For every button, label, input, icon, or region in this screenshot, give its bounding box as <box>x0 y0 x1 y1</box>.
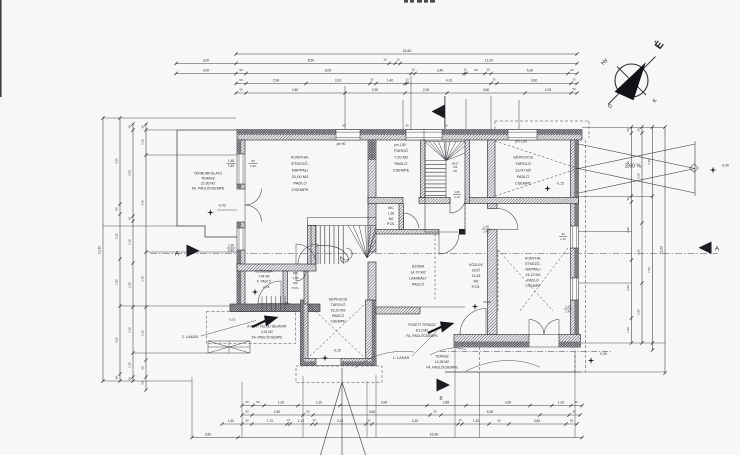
svg-text:30: 30 <box>128 125 132 129</box>
wall eloszoba top <box>237 264 316 271</box>
terrace top-left outline <box>177 130 237 237</box>
svg-text:2,40: 2,40 <box>228 164 234 168</box>
svg-text:1,10: 1,10 <box>298 419 304 423</box>
wall eloszoba/wc divider <box>283 271 288 304</box>
svg-text:-0,02: -0,02 <box>229 318 236 322</box>
svg-text:±0,00: ±0,00 <box>483 300 491 304</box>
svg-text:4,80: 4,80 <box>292 88 299 92</box>
lower garage apron dashed <box>296 366 382 383</box>
section marker A left <box>187 245 200 258</box>
svg-text:WC: WC <box>293 271 299 275</box>
eloszoba door <box>258 281 281 304</box>
svg-text:2,10: 2,10 <box>454 195 460 199</box>
wall corridor / konyha2 <box>488 204 498 209</box>
svg-text:90: 90 <box>256 400 260 404</box>
compass rose <box>615 64 648 97</box>
svg-text:K. PADLÓ: K. PADLÓ <box>257 279 272 284</box>
svg-text:5,30: 5,30 <box>487 410 494 414</box>
window left wall 2 <box>237 228 245 250</box>
outer wall top <box>237 130 582 141</box>
entrance arrow left flat <box>252 321 266 328</box>
svg-text:2,40: 2,40 <box>228 248 234 252</box>
svg-text:1,20: 1,20 <box>558 400 564 404</box>
svg-text:24,12 M2: 24,12 M2 <box>526 273 541 277</box>
svg-text:B: B <box>439 396 442 401</box>
svg-text:CSEMPE: CSEMPE <box>525 284 541 288</box>
svg-text:FA. PADLÓCSEMPE: FA. PADLÓCSEMPE <box>192 186 225 191</box>
interior wall above szoba <box>376 230 439 235</box>
svg-text:2,10: 2,10 <box>128 239 132 245</box>
svg-text:pm 1,80: pm 1,80 <box>394 143 406 147</box>
svg-text:2,30: 2,30 <box>115 279 119 285</box>
svg-text:3,60: 3,60 <box>531 78 538 82</box>
svg-text:90: 90 <box>561 232 565 236</box>
svg-text:GÉPKOCSI: GÉPKOCSI <box>513 155 533 160</box>
svg-text:50: 50 <box>570 68 574 72</box>
svg-text:1,48: 1,48 <box>228 159 234 163</box>
svg-text:3,30: 3,30 <box>115 337 119 343</box>
svg-text:3,30: 3,30 <box>505 400 512 404</box>
leader curves <box>355 351 414 368</box>
svg-text:10: 10 <box>411 68 415 72</box>
extension lines from top chains <box>402 100 404 130</box>
svg-text:-0,02: -0,02 <box>218 204 226 208</box>
svg-text:TÁROLÓ: TÁROLÓ <box>331 302 346 307</box>
svg-text:FA. PADLÓCSEMPE: FA. PADLÓCSEMPE <box>426 365 458 370</box>
svg-text:2,20: 2,20 <box>115 233 119 239</box>
svg-text:8,50: 8,50 <box>308 58 315 62</box>
wall garage left <box>488 140 496 198</box>
svg-text:3,45: 3,45 <box>647 159 651 165</box>
svg-text:EDŐ: EDŐ <box>472 268 480 273</box>
interior wall under bathroom/garage <box>368 198 403 204</box>
section flag B top <box>444 96 446 130</box>
svg-text:2,70: 2,70 <box>141 276 145 282</box>
svg-text:1,40: 1,40 <box>387 78 394 82</box>
svg-text:PADLÓ: PADLÓ <box>412 282 424 287</box>
section line B bottom + V mark <box>341 368 343 455</box>
svg-text:10: 10 <box>459 418 462 422</box>
svg-text:2,10: 2,10 <box>560 237 566 241</box>
svg-text:12,30: 12,30 <box>98 246 102 255</box>
svg-text:12,63: 12,63 <box>472 274 481 278</box>
svg-text:FEDETT TERASZ: FEDETT TERASZ <box>408 323 435 327</box>
svg-text:1,20: 1,20 <box>141 139 145 145</box>
level -0,30 right <box>710 167 717 174</box>
wall bathroom/stair divider <box>421 140 426 198</box>
svg-text:2,40: 2,40 <box>250 164 256 168</box>
clipped header text <box>404 0 408 3</box>
svg-text:1,96: 1,96 <box>388 211 395 215</box>
svg-text:4,10: 4,10 <box>446 78 453 82</box>
lower garage dashed X <box>309 305 364 357</box>
svg-text:P.CS.: P.CS. <box>472 285 481 289</box>
svg-text:90: 90 <box>141 366 145 370</box>
bathroom door <box>404 213 419 228</box>
staircase 2 central <box>308 217 377 219</box>
svg-text:3,80: 3,80 <box>483 88 490 92</box>
svg-text:ELŐSZOBA: ELŐSZOBA <box>255 269 273 274</box>
svg-text:1,70: 1,70 <box>267 419 273 423</box>
window left wall 1 <box>237 154 245 184</box>
level terrace right <box>588 357 595 364</box>
svg-text:15: 15 <box>396 58 400 62</box>
svg-text:PADLÓ: PADLÓ <box>293 181 306 186</box>
svg-text:3,60: 3,60 <box>534 419 541 423</box>
svg-text:90: 90 <box>251 159 255 163</box>
svg-text:2,85: 2,85 <box>443 400 450 404</box>
svg-text:12,30: 12,30 <box>660 246 664 254</box>
svg-text:pm 90: pm 90 <box>337 142 346 146</box>
svg-text:GÉPKOCSI: GÉPKOCSI <box>329 297 348 302</box>
svg-text:50: 50 <box>306 410 310 414</box>
bottom dimension chain row 1 <box>242 405 582 407</box>
section marker A right <box>699 242 712 255</box>
level mark terasz <box>207 209 214 216</box>
svg-text:50: 50 <box>239 78 243 82</box>
svg-text:7,35: 7,35 <box>647 267 651 273</box>
svg-text:M2: M2 <box>389 217 394 221</box>
outer wall left <box>237 140 245 154</box>
svg-text:2,05: 2,05 <box>423 88 430 92</box>
stair2 lower double door <box>296 244 316 264</box>
svg-text:30: 30 <box>626 128 630 132</box>
svg-text:P.CS.: P.CS. <box>292 286 300 290</box>
svg-text:2,40: 2,40 <box>565 309 571 313</box>
stair1 door arc <box>450 198 466 214</box>
svg-text:2,50: 2,50 <box>274 410 281 414</box>
left extension lines <box>103 117 236 119</box>
svg-text:31,00 M2: 31,00 M2 <box>292 174 309 179</box>
svg-text:TERASZ: TERASZ <box>201 177 216 181</box>
svg-text:4,20: 4,20 <box>412 419 419 423</box>
svg-text:2,90: 2,90 <box>626 227 630 233</box>
svg-text:4,41 M2: 4,41 M2 <box>261 330 273 334</box>
svg-text:CSEMPE: CSEMPE <box>292 187 309 192</box>
svg-text:1,20: 1,20 <box>316 400 323 404</box>
stair2 walkline <box>316 246 349 263</box>
svg-text:1,80: 1,80 <box>454 190 460 194</box>
corridor dashed lines <box>434 234 436 300</box>
level garage2 <box>322 355 329 362</box>
svg-text:1,25: 1,25 <box>278 400 285 404</box>
svg-text:30: 30 <box>368 418 371 422</box>
svg-text:KONYHA-: KONYHA- <box>291 155 310 160</box>
svg-text:3,80: 3,80 <box>369 410 376 414</box>
svg-text:3,00: 3,00 <box>203 58 210 62</box>
svg-text:5,30: 5,30 <box>527 68 534 72</box>
svg-text:1,30: 1,30 <box>473 419 479 423</box>
svg-text:30: 30 <box>115 376 119 380</box>
svg-text:30: 30 <box>487 67 490 71</box>
svg-text:LAMINÁLT: LAMINÁLT <box>409 277 428 281</box>
wc2 door <box>296 271 306 281</box>
svg-text:15: 15 <box>383 58 387 62</box>
svg-text:50: 50 <box>141 381 145 385</box>
top dimension chain row 4 <box>236 83 577 85</box>
left dimension chains <box>102 118 104 381</box>
bottom extension lines <box>191 377 193 438</box>
scan left edge <box>0 0 2 97</box>
staircase 1 top right <box>424 140 426 232</box>
svg-text:10: 10 <box>128 217 132 221</box>
svg-text:11,00: 11,00 <box>485 58 493 62</box>
svg-text:1,40: 1,40 <box>483 225 489 229</box>
svg-text:90: 90 <box>444 124 448 128</box>
svg-text:50: 50 <box>245 410 249 414</box>
svg-text:CSEMPE: CSEMPE <box>515 182 532 186</box>
wall szoba bottom partial <box>376 307 420 314</box>
garage1 dashed door swing <box>495 141 578 169</box>
svg-text:2,95: 2,95 <box>637 249 641 255</box>
svg-text:1,96: 1,96 <box>292 276 298 280</box>
svg-text:22,95 M2: 22,95 M2 <box>201 182 216 186</box>
svg-text:10: 10 <box>464 67 467 71</box>
entrance arrow right flat <box>428 327 442 334</box>
level garage1 <box>544 185 551 192</box>
svg-text:10: 10 <box>313 418 316 422</box>
window right wall 1 <box>571 226 579 248</box>
svg-text:50: 50 <box>245 419 249 423</box>
svg-text:NAPPALI: NAPPALI <box>292 168 309 173</box>
svg-text:2,60 %: 2,60 % <box>625 164 642 170</box>
svg-text:20: 20 <box>572 410 576 414</box>
svg-text:18x17: 18x17 <box>451 162 459 166</box>
svg-text:-0,15: -0,15 <box>262 285 269 289</box>
window W top living <box>336 130 360 141</box>
svg-text:3,00: 3,00 <box>203 68 210 72</box>
section marker B bottom right <box>437 379 451 392</box>
bottom dimension chain row 2 <box>242 414 580 416</box>
svg-text:7,04 M2: 7,04 M2 <box>258 275 270 279</box>
svg-text:3,10: 3,10 <box>335 78 342 82</box>
svg-text:1,20: 1,20 <box>626 327 630 333</box>
svg-text:NAPPALI: NAPPALI <box>526 268 541 272</box>
svg-text:2. LAKÁS: 2. LAKÁS <box>182 335 199 339</box>
svg-text:50: 50 <box>115 207 119 211</box>
svg-text:SZOBA: SZOBA <box>412 265 425 269</box>
svg-text:pm 1,80: pm 1,80 <box>515 140 527 144</box>
svg-text:-0,15: -0,15 <box>556 182 563 186</box>
svg-text:2,60: 2,60 <box>141 330 145 336</box>
garage top dashed overhang <box>495 120 589 122</box>
level eloszoba <box>252 289 259 296</box>
svg-text:30: 30 <box>637 128 641 132</box>
svg-text:P.CS.: P.CS. <box>387 222 395 226</box>
svg-text:PADLÓ: PADLÓ <box>395 161 408 166</box>
bottom double door right flat <box>529 320 544 335</box>
svg-text:2,30: 2,30 <box>128 327 132 333</box>
svg-text:-0,30: -0,30 <box>599 352 607 356</box>
svg-text:8,12 M2: 8,12 M2 <box>416 329 428 333</box>
outer wall right <box>571 140 579 226</box>
window W top garage <box>508 130 537 141</box>
svg-text:-0,30: -0,30 <box>721 164 729 168</box>
svg-text:10: 10 <box>406 77 409 81</box>
svg-text:CSEMPE: CSEMPE <box>330 320 346 324</box>
svg-text:1. LAKÁS: 1. LAKÁS <box>393 356 410 360</box>
window W top hall <box>406 130 442 141</box>
dash-dot line lower right <box>440 351 612 353</box>
svg-text:30: 30 <box>573 78 576 82</box>
svg-text:30: 30 <box>626 197 630 201</box>
svg-text:30: 30 <box>141 125 145 129</box>
svg-text:WC: WC <box>388 206 394 210</box>
svg-text:PADLÓ: PADLÓ <box>517 174 530 179</box>
bottom wall right flat <box>454 335 529 348</box>
svg-text:3,10: 3,10 <box>337 419 344 423</box>
svg-text:16,20 M2: 16,20 M2 <box>331 309 346 313</box>
svg-text:M2: M2 <box>474 280 479 284</box>
svg-text:=29: =29 <box>453 165 458 169</box>
svg-text:ÉTKEZŐ-: ÉTKEZŐ- <box>291 161 309 166</box>
top dimension chain row 5 <box>236 92 577 94</box>
terrace door single <box>460 309 486 335</box>
svg-text:90: 90 <box>474 68 478 72</box>
svg-text:50: 50 <box>573 87 576 91</box>
svg-text:FA. PADLÓCSEMPE: FA. PADLÓCSEMPE <box>252 335 284 340</box>
svg-text:TÉRBURKOLATÚ: TÉRBURKOLATÚ <box>194 171 223 176</box>
svg-text:-0,15: -0,15 <box>333 349 340 353</box>
svg-text:8,00: 8,00 <box>325 68 332 72</box>
konyha2 dashed X <box>498 250 553 311</box>
konyha2 door <box>497 209 518 230</box>
top dimension chain row 3 <box>176 73 577 75</box>
top dimension chain row 1 (16,60) <box>236 53 577 55</box>
svg-text:2,40: 2,40 <box>437 68 444 72</box>
porch dashed outline <box>207 312 296 344</box>
entrance step block <box>208 341 250 353</box>
svg-text:14,25 M2: 14,25 M2 <box>435 360 449 364</box>
svg-text:TERASZ: TERASZ <box>435 355 448 359</box>
right dashed overhang <box>585 140 587 372</box>
wall wc right <box>399 204 404 230</box>
svg-text:CSEMPE: CSEMPE <box>393 168 410 173</box>
svg-text:20: 20 <box>128 377 132 381</box>
svg-text:2,40: 2,40 <box>483 229 489 233</box>
svg-text:FA. PADLÓCSEMPE: FA. PADLÓCSEMPE <box>406 333 438 338</box>
svg-text:TÁROLÓ: TÁROLÓ <box>515 161 531 166</box>
svg-text:30: 30 <box>493 78 496 82</box>
svg-text:50: 50 <box>239 68 243 72</box>
svg-text:13x: 13x <box>453 169 458 173</box>
svg-text:2,90: 2,90 <box>372 88 379 92</box>
svg-text:M2: M2 <box>293 281 298 285</box>
svg-text:50: 50 <box>239 88 243 92</box>
svg-text:14,70 M2: 14,70 M2 <box>410 271 425 275</box>
double door left wall <box>245 189 262 206</box>
svg-text:3,90: 3,90 <box>381 400 388 404</box>
svg-text:PADLÓ: PADLÓ <box>332 313 344 318</box>
window right wall 2 <box>571 278 579 300</box>
svg-text:4,50: 4,50 <box>637 173 641 179</box>
svg-text:30: 30 <box>371 78 374 82</box>
svg-text:7,20 M2: 7,20 M2 <box>394 155 408 160</box>
svg-text:90: 90 <box>405 124 409 128</box>
svg-text:4,70: 4,70 <box>141 200 145 206</box>
svg-text:50: 50 <box>497 419 501 423</box>
svg-text:1,20: 1,20 <box>128 362 132 368</box>
svg-text:ÉTKEZŐ-: ÉTKEZŐ- <box>525 261 541 266</box>
svg-text:90: 90 <box>342 124 346 128</box>
svg-text:1,90: 1,90 <box>228 244 234 248</box>
svg-text:2,90: 2,90 <box>273 78 280 82</box>
svg-text:1,50: 1,50 <box>228 419 234 423</box>
svg-text:50: 50 <box>570 418 574 422</box>
svg-text:2,25: 2,25 <box>545 88 552 92</box>
staircase 3 small entrance steps <box>262 296 285 312</box>
top dimension chain row 2 <box>176 63 577 65</box>
szoba door <box>439 234 459 254</box>
svg-text:4,20: 4,20 <box>115 158 119 164</box>
level corridor <box>472 303 479 310</box>
svg-text:4,20: 4,20 <box>128 170 132 176</box>
svg-text:KONYHA-: KONYHA- <box>525 257 542 261</box>
svg-text:PADLÓ: PADLÓ <box>527 278 539 283</box>
svg-text:KÖZLEK: KÖZLEK <box>469 263 483 267</box>
svg-text:50: 50 <box>245 400 249 404</box>
wall stair right <box>465 140 470 204</box>
svg-text:16,60: 16,60 <box>430 432 439 436</box>
wall stair2 left <box>308 226 317 265</box>
right extension lines <box>582 127 665 129</box>
svg-text:3,50: 3,50 <box>205 432 212 436</box>
svg-text:1,40: 1,40 <box>565 305 571 309</box>
driveway ramp bowtie <box>579 144 696 169</box>
svg-text:2,20: 2,20 <box>128 282 132 288</box>
svg-text:2,90: 2,90 <box>626 285 630 291</box>
right dimension chains <box>631 127 633 343</box>
svg-text:16,60: 16,60 <box>403 49 412 53</box>
svg-text:50: 50 <box>433 410 437 414</box>
terrace bottom right <box>445 371 581 373</box>
svg-text:FÜRDŐ: FÜRDŐ <box>394 148 408 153</box>
bottom dimension chain row 4 (totals) <box>192 437 582 439</box>
svg-text:2,95: 2,95 <box>637 309 641 315</box>
bottom wall entrance row <box>230 304 320 312</box>
lower garage walls <box>301 300 309 366</box>
interior wall central vertical <box>368 140 376 252</box>
section line A-A <box>150 253 718 255</box>
svg-text:10: 10 <box>287 418 290 422</box>
bottom dimension chain row 3 <box>222 423 577 425</box>
svg-text:13,00 M2: 13,00 M2 <box>515 169 531 173</box>
